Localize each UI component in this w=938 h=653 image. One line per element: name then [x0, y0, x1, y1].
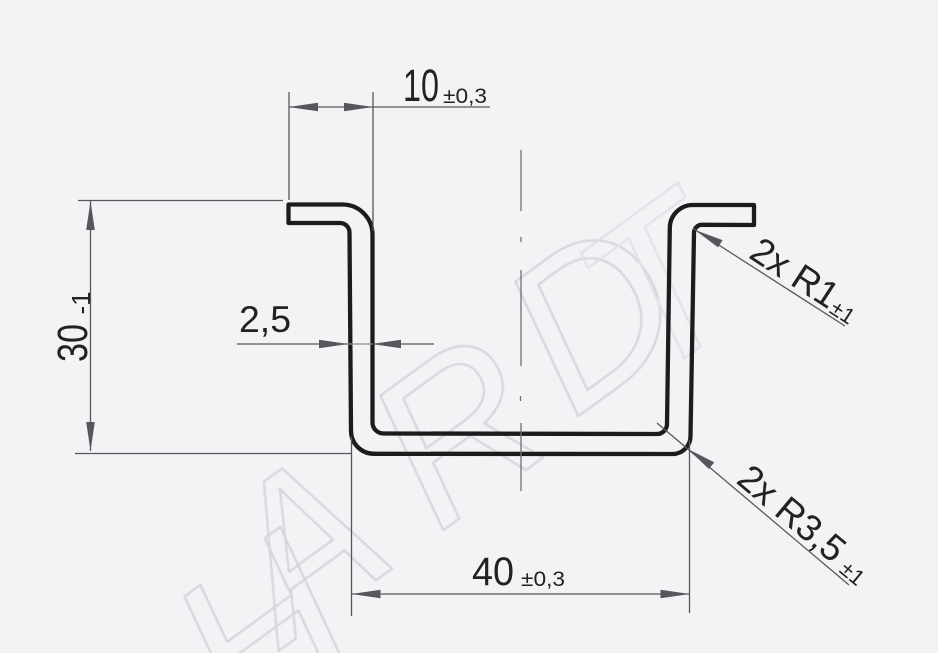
svg-text:2,5: 2,5 [239, 299, 291, 340]
svg-text:30: 30 [49, 324, 97, 362]
dimension 2,5 wall thickness: leader lines [237, 343, 434, 345]
dimension 10 ±0,3: extension lines and dimension line [289, 92, 490, 231]
dimension 40 ±0,3: extension lines and dimension line [352, 437, 690, 616]
U-channel profile cross-section outline [289, 205, 755, 455]
radius callout 2x R3,5 ±1: arrowhead [688, 449, 714, 469]
dimension 30 -1: extension lines and dimension line [75, 201, 352, 454]
dimension 10 ±0,3: arrowheads [289, 103, 373, 112]
svg-text:±0,3: ±0,3 [521, 567, 565, 591]
dimension 30 -1: arrowheads [86, 201, 95, 451]
radius callout 2x R3,5 ±1: leader line [657, 423, 849, 585]
dimension 40 ±0,3: arrowheads [352, 590, 690, 599]
svg-text:-1: -1 [66, 291, 96, 314]
radius callout 2x R1 ±1: arrowhead [695, 230, 723, 247]
vertical centerline (dash-dot) [520, 150, 523, 491]
svg-text:±0,3: ±0,3 [443, 84, 487, 108]
dimension 2,5: arrowheads [319, 340, 401, 349]
radius callout 2x R1 ±1: leader line [693, 229, 845, 327]
svg-text:10: 10 [403, 60, 439, 111]
svg-text:40: 40 [472, 550, 514, 594]
